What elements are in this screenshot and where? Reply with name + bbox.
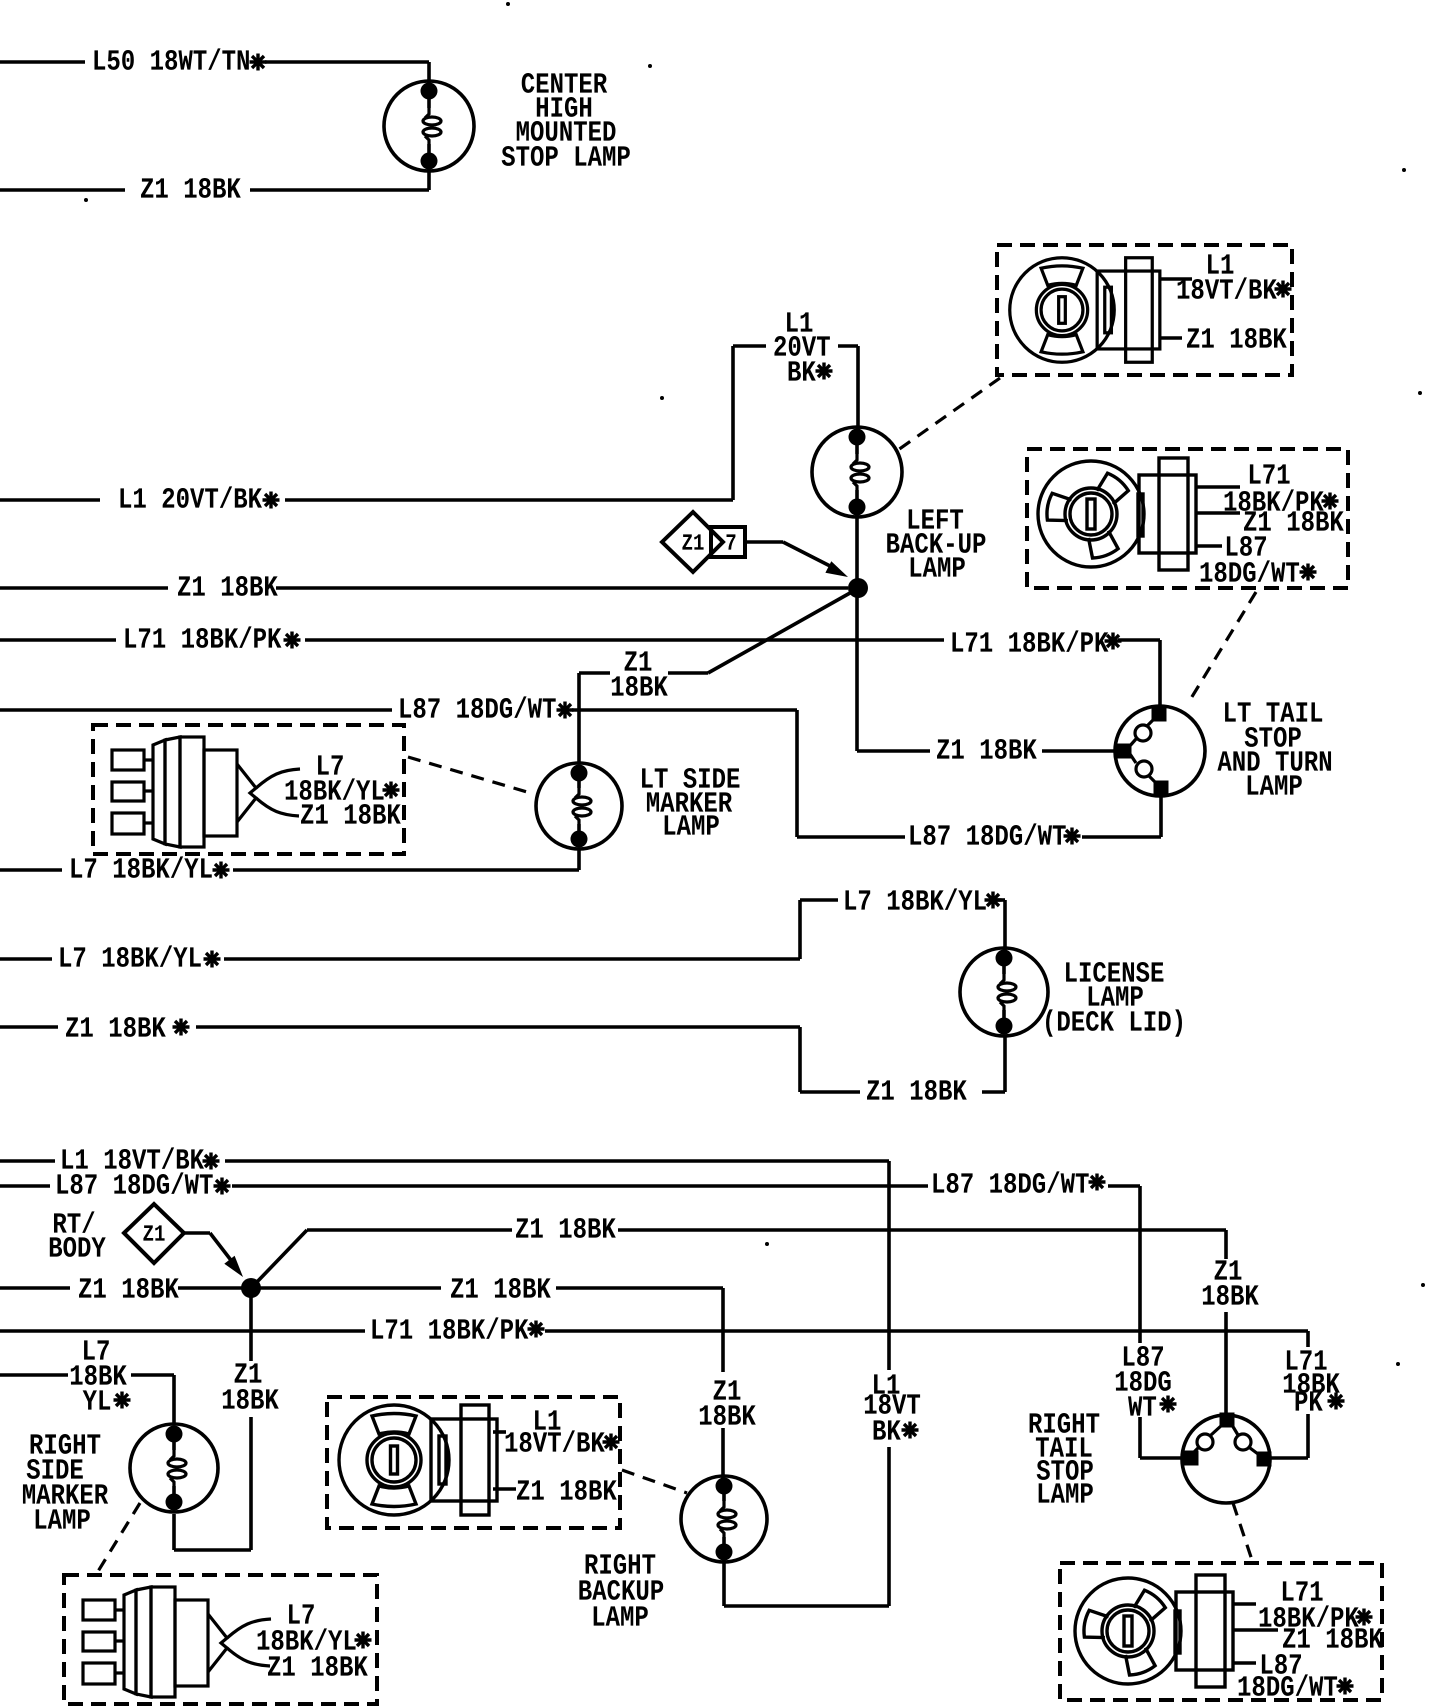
wires in L1 socket box bottom xyxy=(493,1430,506,1434)
label L1 18VT BK stack xyxy=(874,1374,899,1393)
wire L71 18BK/PK row xyxy=(0,638,116,642)
lamp left back-up lamp xyxy=(812,427,902,517)
lamp center high mounted stop lamp xyxy=(384,81,474,171)
label Z1 18BK mid2 xyxy=(451,1278,551,1298)
wires in L71 socket box xyxy=(1196,485,1240,489)
wire L50 row to center stop lamp xyxy=(0,60,85,64)
wire Z1 row from center stop lamp xyxy=(0,188,125,192)
wire Z1 18BK row to junction xyxy=(0,586,168,590)
lamp LT tail stop and turn xyxy=(1115,706,1205,796)
wire L1 20VT/BK row xyxy=(0,498,100,502)
node junction left xyxy=(848,578,868,598)
connector dashed box L71 socket bottom right xyxy=(1060,1563,1382,1700)
connector dashed box L71 socket middle right xyxy=(1027,449,1348,588)
connector 2-wire socket bottom xyxy=(339,1405,497,1515)
dashed leader to right backup lamp xyxy=(622,1470,687,1493)
label L7 18BK/YL and Z1 18BK in box xyxy=(318,755,343,774)
wires in L71 socket box bottom xyxy=(1233,1602,1256,1606)
label LICENSE LAMP DECK LID xyxy=(1066,962,1163,982)
label L71 18BK PK stack xyxy=(1287,1350,1327,1369)
label L7 18BK/YL xyxy=(60,945,200,967)
labels in bulb holder box bottom xyxy=(289,1604,314,1623)
connector 3-wire socket xyxy=(1038,458,1196,570)
label L71 18BK/PK right xyxy=(952,630,1108,652)
label Z1 18BK xyxy=(141,178,241,198)
labels in L71 socket box xyxy=(1250,464,1290,483)
label Z1 18BK stack marker xyxy=(235,1363,262,1382)
label Z1 18BK stack xyxy=(625,651,652,670)
wire L7 18BK/YL row to license lamp xyxy=(0,957,52,961)
connector dashed box L1 socket bottom xyxy=(327,1397,620,1528)
wire L87 18DG/WT row xyxy=(0,708,392,712)
label CENTER HIGH MOUNTED STOP LAMP xyxy=(522,73,607,93)
wire L87 stack to right tail lamp xyxy=(1138,1417,1142,1458)
label L87 18DG WT stack xyxy=(1124,1346,1163,1366)
node junction bottom xyxy=(241,1278,261,1298)
label L7 18BK/YL xyxy=(71,856,211,878)
label Z1 18BK stack right xyxy=(1215,1260,1242,1279)
flag RT/BODY Z1 diamond xyxy=(54,1211,95,1233)
label LT SIDE MARKER LAMP xyxy=(642,768,739,788)
wire license lamp ground elbow xyxy=(800,1090,860,1094)
dashed leader to LT tail lamp xyxy=(1190,592,1256,700)
label L87 18DG/WT right xyxy=(933,1171,1088,1193)
label L87 18DG/WT lower xyxy=(910,823,1065,845)
dashed leader to L71 socket box bottom xyxy=(1233,1503,1252,1560)
label RIGHT TAIL STOP LAMP xyxy=(1030,1413,1100,1433)
lamp right tail stop xyxy=(1182,1415,1270,1503)
connector dashed box bulb holder bottom xyxy=(64,1575,377,1704)
wire Z1 18BK row bottom xyxy=(0,1286,70,1290)
dashed leader to side marker lamp xyxy=(408,757,534,794)
wire L87 18DG/WT row bottom xyxy=(0,1184,50,1188)
lamp right side marker xyxy=(130,1424,218,1512)
wire L71 18BK/PK row bottom xyxy=(0,1329,365,1333)
dashed leader to bulb holder box bottom xyxy=(97,1503,140,1573)
connector dashed box L1 socket top right xyxy=(997,245,1292,375)
label Z1 18BK mid xyxy=(516,1218,616,1238)
wire license lamp feed elbow xyxy=(800,898,838,902)
wire right backup lamp bottom to L1 feed xyxy=(722,1559,726,1606)
connector 2-wire socket xyxy=(1010,258,1160,363)
wire flag arrow to junction xyxy=(745,540,783,544)
connector 3-wire socket bottom xyxy=(1075,1575,1233,1687)
wire flag arrow to junction bottom xyxy=(184,1231,210,1235)
label Z1 18BK xyxy=(66,1017,166,1037)
lamp LT side marker xyxy=(536,763,622,849)
label Z1 18BK at license lamp xyxy=(867,1080,967,1100)
lamp license lamp deck lid xyxy=(960,948,1048,1036)
label L1 20VT/BK xyxy=(120,486,262,508)
label L50 18WT/TN xyxy=(94,48,248,70)
wire L7 18BK YL to right side marker xyxy=(0,1373,68,1377)
wire L7 18BK/YL row from side marker xyxy=(0,868,62,872)
label LEFT BACK-UP LAMP xyxy=(909,509,963,528)
label RIGHT SIDE MARKER LAMP xyxy=(31,1434,101,1454)
label L87 18DG/WT left xyxy=(57,1172,212,1194)
labels in L1 socket box bottom xyxy=(535,1410,560,1429)
wire left backup lamp to junction xyxy=(855,514,859,580)
label L1 18VT/BK xyxy=(62,1147,204,1169)
dashed leader to left backup lamp xyxy=(898,378,1000,450)
labels L1 18VT/BK and Z1 18BK in box xyxy=(1208,254,1233,273)
wire L87 row to LT tail lamp xyxy=(797,835,905,839)
wire L1 20VT BK elbow to left backup lamp xyxy=(733,344,766,348)
label Z1 18BK stack backup xyxy=(714,1380,741,1399)
label L71 18BK/PK left xyxy=(125,626,281,648)
label L7 18BK/YL at license lamp xyxy=(845,888,985,910)
label L71 18BK/PK xyxy=(372,1317,528,1339)
label Z1 18BK xyxy=(178,576,278,596)
lamp right backup xyxy=(681,1476,767,1562)
wire junction down to LT tail lamp Z1 row xyxy=(855,596,859,751)
flag Z1-7 takeout diamond xyxy=(662,512,723,572)
connector bulb holder side view bottom xyxy=(83,1587,271,1697)
label L1 20VT BK stack xyxy=(787,312,812,331)
label L7 18BK YL stack xyxy=(84,1340,109,1359)
wire Z1 18BK elbow side marker to junction xyxy=(577,673,581,762)
wire Z1 18BK row to license lamp xyxy=(0,1025,58,1029)
wire L1 18VT/BK row bottom xyxy=(0,1159,55,1163)
stray scan specks xyxy=(506,2,510,6)
wire Z1 18BK upper branch xyxy=(256,1230,307,1283)
label L87 18DG/WT xyxy=(400,696,555,718)
labels in L71 socket box bottom xyxy=(1283,1581,1323,1600)
connector dashed box bulb holder left xyxy=(93,725,404,854)
wire junction down to right side marker xyxy=(249,1294,253,1361)
label LT TAIL STOP AND TURN LAMP xyxy=(1225,702,1322,721)
label RIGHT BACKUP LAMP xyxy=(586,1554,656,1574)
label Z1 18BK left xyxy=(79,1278,179,1298)
label Z1 18BK xyxy=(937,739,1037,759)
wires in L1 socket box xyxy=(1160,277,1192,281)
connector bulb holder side view xyxy=(112,737,300,847)
wire Z1 18BK row to LT tail lamp xyxy=(857,749,930,753)
